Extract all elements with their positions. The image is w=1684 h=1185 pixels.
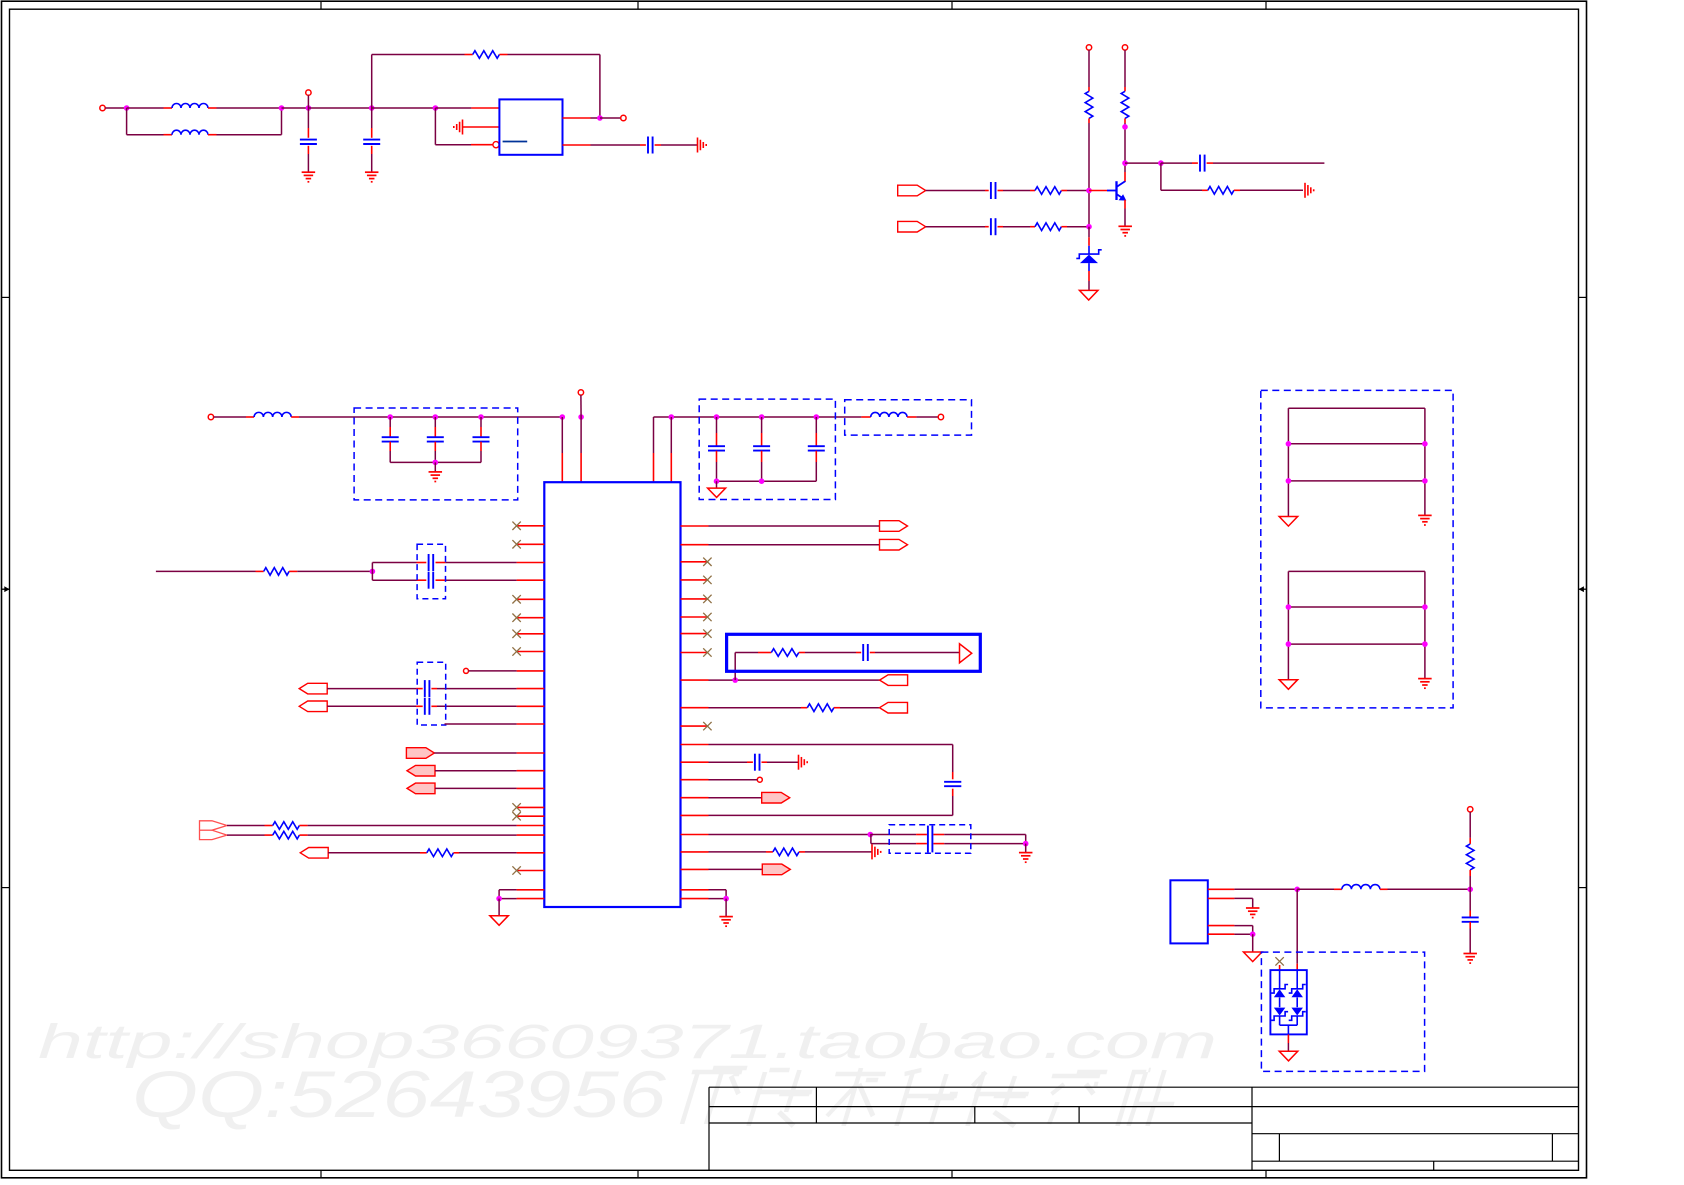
ground [429,471,443,473]
wire [1160,163,1162,190]
signal ground [798,755,800,770]
bypass cap box [889,825,971,854]
wire [709,889,727,891]
signal ground [462,120,464,135]
wire [327,688,416,690]
wire [815,417,817,433]
capacitor C2 [363,139,380,141]
pin bubble U1.3 [493,142,499,148]
wire [1424,571,1426,678]
wire [735,652,758,654]
wire [1208,897,1235,899]
node CB2-1 [759,414,765,420]
terminal J9 [464,668,469,673]
wire [1469,889,1471,910]
U2 left NC pin [517,598,545,600]
transistor Q1 [1107,190,1117,192]
wire [291,416,299,418]
U2 pin [681,797,709,799]
connector P8 [200,821,228,840]
wire [580,417,582,453]
U2 right NC pin [681,725,709,727]
wire [1288,480,1425,482]
wire [463,126,500,128]
node N7 [1294,887,1300,893]
connector P6 [407,765,435,776]
connector P15 [762,864,790,875]
U2 pin [681,744,709,746]
U2 left NC pin [517,525,545,527]
zener D1 [1076,250,1101,259]
capacitor C3 [647,137,649,154]
wire [1088,263,1090,271]
zener [1271,985,1288,994]
wire [725,899,727,917]
wire [390,461,481,463]
ground [490,916,509,926]
wire [431,688,437,690]
wire [434,108,436,145]
node H [1086,188,1092,194]
wire [156,570,256,572]
wire [208,107,217,109]
wire [734,653,736,681]
capacitor C6 [1199,155,1201,172]
wire [434,417,436,427]
wire [580,395,582,417]
wire [1287,571,1289,679]
connector P11 [880,539,908,550]
wire [299,825,307,827]
wire [1469,870,1471,876]
node G [1122,124,1128,130]
wire [1288,643,1425,645]
capacitor C8 [427,436,444,438]
ground [719,916,733,918]
connector P3 [299,683,327,694]
zener [1271,1012,1288,1021]
U2 pin [681,707,709,709]
wire [1288,570,1425,572]
wire [371,571,373,580]
capacitor C17 [862,644,864,661]
capacitor C4 [990,182,992,199]
wire [435,107,471,109]
wire [709,525,880,527]
U2 pin [517,825,545,827]
capacitor C15 [424,680,426,697]
wire [307,146,309,154]
node CB2b [759,478,765,484]
resistor R5 [1035,223,1061,231]
U2 pin [517,898,545,900]
terminal J2 [306,90,311,95]
resistor R13 [773,848,799,856]
node CB2a [714,478,720,484]
capacitor C9 [473,436,490,438]
inductor L5 [1342,885,1380,890]
resistor R14 [1466,844,1474,870]
wire [861,416,870,418]
resistor R7 [264,568,289,576]
inductor L2 [172,130,208,135]
node CB1-2 [478,414,484,420]
wire [469,670,517,672]
wire [372,107,436,109]
signal ground [1304,183,1306,198]
U2 right NC pin [681,598,709,600]
U2 right NC pin [681,652,709,654]
node E [433,105,439,111]
U2 right NC pin [681,561,709,563]
wire [445,723,517,725]
wire [105,107,126,109]
connector P13 [880,702,908,713]
wire [1287,408,1289,516]
wire [371,55,373,109]
capacitor C18 [944,781,961,783]
wire [434,752,516,754]
watermark line 2 cjk [679,1068,747,1124]
ground [1279,680,1298,690]
wire [1380,888,1388,890]
wire [227,825,265,827]
wire [1124,118,1126,123]
node M3 [669,414,675,420]
node I [1122,160,1128,166]
U2 pin [517,787,545,789]
U2 right NC pin [681,616,709,618]
ground [1418,514,1432,516]
U2 pin [517,834,545,836]
wire [561,417,563,453]
wire [227,834,265,836]
wire [1279,1016,1281,1025]
resistor R1 [473,51,500,59]
capacitor C16 [424,698,426,715]
U2 left NC pin [517,870,545,872]
U2 left NC pin [517,633,545,635]
U2 pin [681,889,709,891]
connector P2 [898,221,926,232]
U2 pin [517,688,545,690]
U2 pin [681,898,709,900]
wire [389,417,391,427]
U2 pin [681,761,709,763]
U2 pin [517,723,545,725]
wire [717,480,817,482]
U2 pin [517,670,545,672]
ground [1019,852,1032,854]
U2 right NC pin [681,579,709,581]
wire [480,417,482,427]
wire [499,889,516,891]
wire [709,797,762,799]
U2 pin [681,834,709,836]
wire [933,834,944,836]
wire [716,481,718,488]
node F [597,115,603,121]
ground [1118,225,1132,227]
node N6 [723,896,729,902]
wire [1124,172,1126,181]
terminal J4 [1086,45,1091,50]
U2 pin [517,889,545,891]
wire [952,789,954,796]
wire [870,652,875,654]
wire [933,843,944,845]
node CB1g [433,460,439,466]
U2 pin [681,851,709,853]
wire [761,417,763,433]
ground [708,488,726,497]
ground [1279,1051,1298,1061]
wire [762,761,768,763]
wire [870,835,872,844]
wire [299,834,307,836]
buffer A1 [960,644,972,663]
node B [279,105,285,111]
resistor R3 [1121,91,1129,118]
wire [499,54,507,56]
U2 pin [517,770,545,772]
wire [709,779,758,781]
ground [1418,678,1432,680]
ground [1079,290,1098,300]
capacitor C12 [808,445,825,447]
U2 pin [681,525,709,527]
capacitor C1 [300,139,317,141]
resistor R10 [427,849,454,857]
connector P9 [300,848,328,859]
wire [926,190,985,192]
wire [1297,888,1334,890]
wire [434,462,436,471]
U2 left NC pin [517,543,545,545]
node C [306,105,312,111]
wire [716,451,718,462]
node [1286,478,1292,484]
wire [435,787,517,789]
wire [907,416,916,418]
U1 inner mark [503,141,528,143]
node CB1-1 [433,414,439,420]
wire [1124,50,1126,87]
capacitor C21 [1462,916,1479,918]
resistor R8 [273,822,300,830]
node N9 [1467,887,1473,893]
wire [709,761,748,763]
wire [499,898,516,900]
node N1 [370,569,376,575]
U2 pin [517,705,545,707]
wire [799,851,805,853]
wire [1287,1025,1289,1034]
capacitor C5 [990,218,992,235]
terminal J3 [621,115,626,120]
wire [1089,190,1107,192]
U2 left NC pin [517,806,545,808]
node N4 [868,832,874,838]
wire [328,852,420,854]
U2 right NC pin [681,633,709,635]
capacitor C13 [428,554,430,571]
U2 left NC pin [517,617,545,619]
terminal J5 [1122,45,1127,50]
wire [998,190,1004,192]
wire [1279,965,1281,970]
resistor R11 [771,649,798,657]
inductor L4 [871,412,907,417]
resistor R6 [1208,187,1234,195]
diode branch wire [1296,970,1298,989]
ground [1463,953,1477,955]
wire [563,144,591,146]
wire [327,705,416,707]
wire [670,417,672,453]
wire [126,108,128,135]
node [1422,641,1428,647]
diode array D2 [1270,970,1306,1034]
wire [1252,934,1254,952]
wire [1208,933,1235,935]
node A [124,105,130,111]
U2 left NC pin [517,651,545,653]
node CB2-0 [714,414,720,420]
connector P12 [880,675,908,686]
title block [709,1086,1579,1088]
wire [709,898,727,900]
node CB1-0 [387,414,393,420]
wire [709,707,802,709]
U2 pin [517,752,545,754]
right center mark [1579,588,1587,590]
U2 pin [517,579,545,581]
terminal J7 [578,390,583,395]
esd box [1261,952,1424,1071]
wire [1061,226,1067,228]
node [1286,641,1292,647]
ladder box [1261,390,1453,708]
wire [834,707,840,709]
wire [389,442,391,451]
wire [654,416,862,418]
wire [308,107,371,109]
terminal J11 [1468,807,1473,812]
U2 pin [517,852,545,854]
wire [709,814,953,816]
wire [926,226,985,228]
wire [127,107,164,109]
wire [655,144,661,146]
wire [1025,844,1027,853]
node N5 [1023,841,1029,847]
U2 pin [681,814,709,816]
cap bank box 1 [354,408,518,500]
RC network box [727,634,981,671]
xtal cap box [417,544,445,599]
border zone ticks [320,1,322,9]
node M1 [560,414,566,420]
node N8 [1250,931,1256,937]
wire [1061,190,1067,192]
capacitor C20 [927,826,929,853]
wire [214,416,246,418]
connector P14 [762,792,790,803]
wire [1296,889,1298,963]
node J [1086,224,1092,230]
inductor L3 [254,412,291,417]
wire [480,442,482,451]
wire [1125,162,1161,164]
U2 pin [681,679,709,681]
ground [302,171,316,173]
wire [434,442,436,451]
wire [208,134,217,136]
wire [870,834,916,836]
svg-text:QQ:52643956: QQ:52643956 [132,1057,666,1131]
wire [371,563,373,572]
capacitor C11 [753,445,770,447]
node K [1158,160,1164,166]
wire [1208,888,1235,890]
wire [709,834,871,836]
wire [815,451,817,462]
wire [289,570,297,572]
wire [1124,200,1126,209]
wire [1424,408,1426,515]
wire [716,417,718,433]
connector P7 [407,783,435,794]
node [1286,604,1292,610]
connector P10 [880,521,908,532]
wire [1469,922,1471,929]
wire [436,579,446,581]
U2 pin [681,868,709,870]
node N2 [496,896,502,902]
signal ground [697,138,699,153]
wire [1287,1034,1289,1043]
wire [1296,1016,1298,1025]
terminal J10 [757,777,762,782]
wire [371,146,373,154]
wire [1280,1024,1298,1026]
wire [435,770,517,772]
wire [1207,162,1213,164]
U2 left NC pin [517,815,545,817]
inductor L1 [172,104,208,109]
wire [1279,997,1281,1007]
wire [709,851,767,853]
wire [709,744,953,746]
node [1422,478,1428,484]
zener [1289,985,1306,994]
wire [282,107,309,109]
wire [761,451,763,462]
wire [1288,606,1425,608]
node M2 [578,414,584,420]
wire [1469,812,1471,838]
connector P4 [299,701,327,712]
ground [365,171,379,173]
connector P5 [406,748,434,759]
wire [371,108,373,128]
zener [1289,1012,1306,1021]
wire [653,417,655,453]
wire [1296,997,1298,1007]
IC U2 [544,482,680,907]
wire [1161,162,1192,164]
